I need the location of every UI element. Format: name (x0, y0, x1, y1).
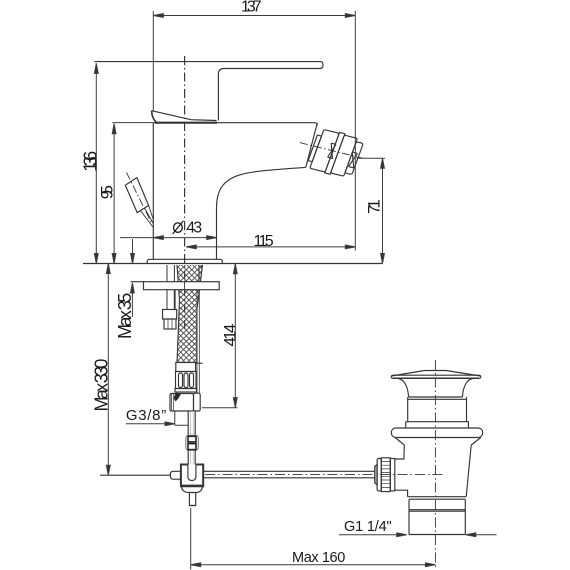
svg-text:137: 137 (241, 0, 262, 16)
svg-text:43: 43 (186, 219, 202, 236)
svg-text:G1 1/4": G1 1/4" (344, 519, 392, 535)
svg-text:95: 95 (98, 185, 117, 199)
svg-text:Max 35: Max 35 (115, 293, 135, 339)
svg-text:115: 115 (254, 233, 274, 250)
svg-text:Max 160: Max 160 (292, 550, 345, 566)
svg-text:71: 71 (366, 199, 384, 214)
svg-text:G3/8”: G3/8” (126, 407, 166, 424)
svg-text:414: 414 (221, 324, 240, 347)
svg-text:136: 136 (81, 151, 101, 172)
svg-text:Max 330: Max 330 (92, 359, 112, 412)
